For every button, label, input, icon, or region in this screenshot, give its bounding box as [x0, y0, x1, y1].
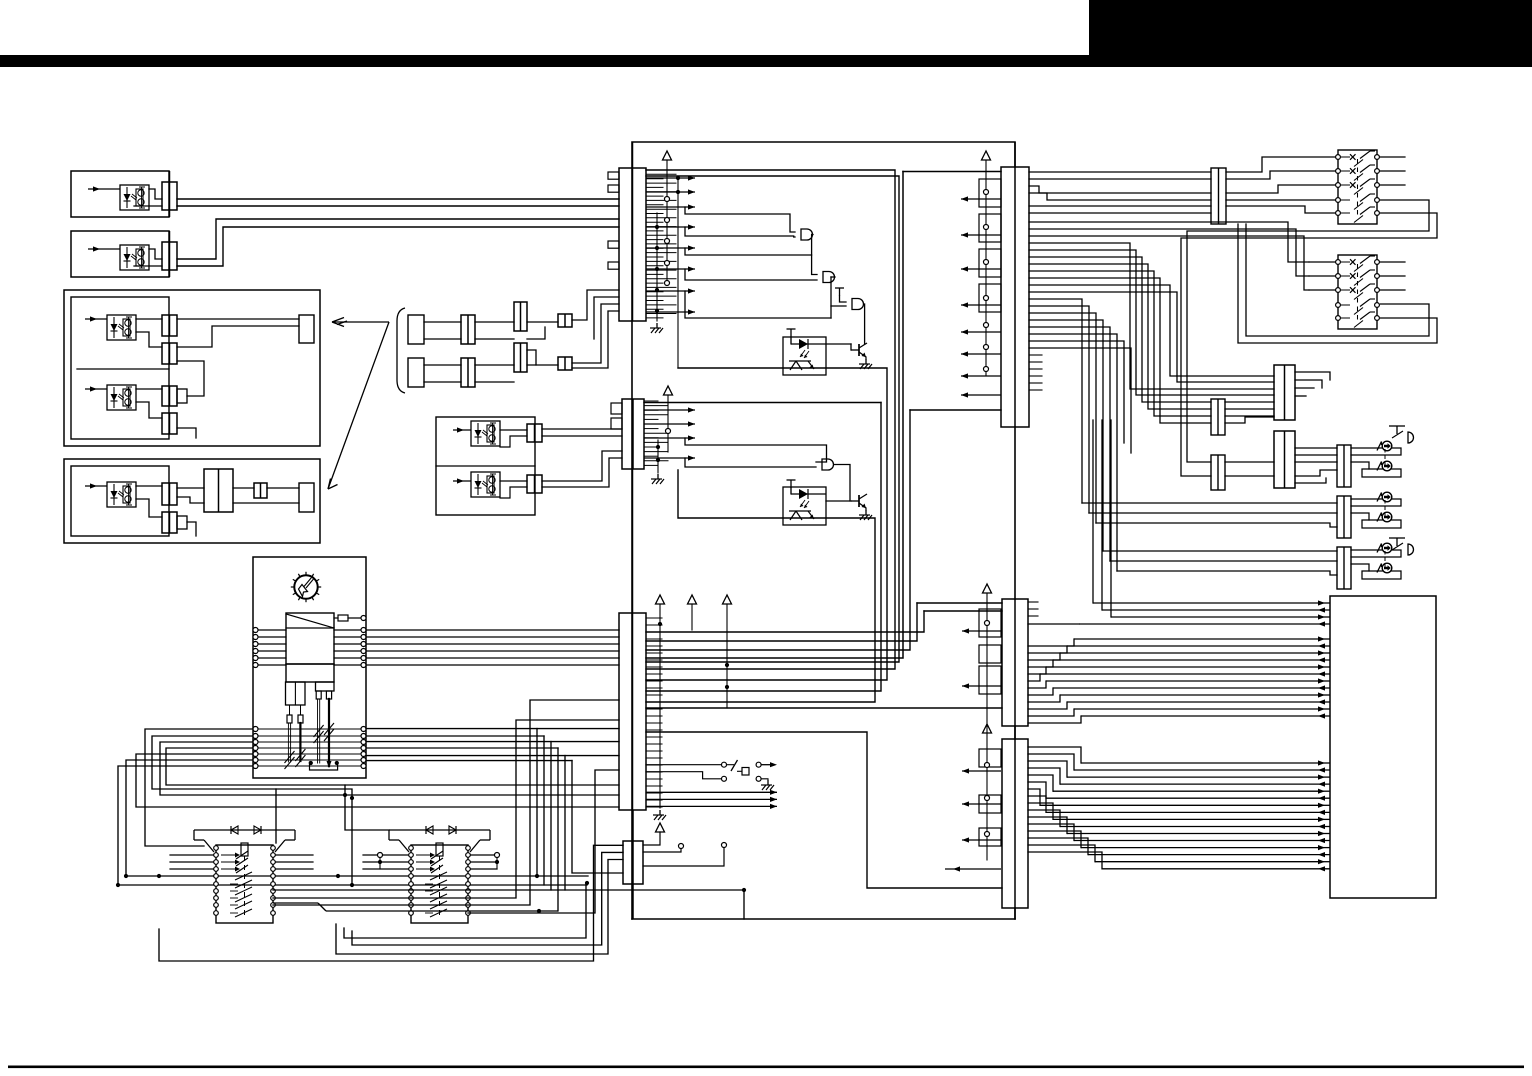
rail — [985, 160, 987, 376]
power symbol — [688, 595, 697, 604]
terminal — [985, 832, 990, 837]
pin — [316, 691, 321, 699]
wire — [1110, 420, 1112, 617]
link dashes — [1384, 551, 1386, 567]
solenoid loop — [1362, 469, 1401, 477]
bracket — [397, 308, 405, 393]
relay jog wire — [273, 903, 558, 911]
terminal — [984, 225, 989, 230]
signal wire — [1088, 852, 1330, 857]
connector CNR4b — [1211, 455, 1225, 490]
triac1 output wire — [646, 368, 887, 680]
wire — [850, 344, 852, 350]
pin wire — [1028, 810, 1060, 827]
AND gate U2 — [822, 459, 834, 470]
pin wire — [644, 400, 658, 402]
pair wire — [1096, 523, 1337, 527]
signal wire — [961, 302, 1001, 307]
ground S1 — [761, 780, 774, 790]
wire — [334, 643, 364, 645]
wire — [348, 617, 364, 619]
pin wire — [646, 178, 663, 180]
pointer arrow A — [332, 318, 389, 327]
connector — [527, 475, 542, 493]
relay RY1 — [194, 826, 295, 923]
wire — [643, 848, 724, 866]
wire to SW1 — [1226, 171, 1338, 179]
pin wire — [644, 464, 658, 466]
ground rail — [657, 440, 659, 473]
signal wire — [1074, 838, 1330, 843]
signal wire — [961, 373, 1001, 378]
junction — [335, 761, 339, 765]
connector CN-B1 — [162, 171, 177, 217]
wire — [177, 428, 196, 438]
wire — [424, 321, 461, 323]
U2 output — [834, 465, 850, 502]
unit box B3 — [64, 290, 320, 446]
pin stub — [608, 185, 619, 192]
connector CN4 — [623, 810, 643, 919]
terminal — [253, 746, 258, 751]
pin wire — [1029, 368, 1042, 370]
pin wire — [646, 247, 663, 249]
pin wire — [646, 278, 676, 280]
terminal — [666, 429, 671, 434]
signal wire — [646, 204, 695, 209]
signal wire — [646, 790, 777, 795]
connector — [514, 343, 527, 372]
switch array SW1 — [1336, 150, 1380, 224]
wire B5 to CN3 — [366, 755, 619, 757]
wire bus — [646, 410, 910, 650]
wire — [1225, 408, 1274, 410]
pin stub — [608, 262, 619, 269]
rail — [677, 178, 679, 368]
wire fan — [1029, 243, 1274, 389]
connector CN-B3 — [299, 315, 314, 343]
pin wire — [644, 437, 658, 439]
bus wire — [118, 884, 587, 886]
wire — [500, 429, 527, 431]
switch array SW2 — [1336, 255, 1380, 329]
bus wire — [273, 889, 744, 891]
pin wire — [1028, 838, 1088, 855]
gauge ticks — [314, 725, 324, 743]
wire — [527, 321, 558, 323]
wire — [366, 747, 558, 749]
terminal — [756, 776, 761, 781]
gauge ticks — [324, 723, 334, 741]
wire fan — [1029, 320, 1103, 551]
pin wire — [1028, 709, 1074, 716]
pin stub — [611, 403, 622, 414]
wire fan — [1029, 271, 1211, 416]
pin stub box — [979, 645, 1001, 663]
wire row — [258, 753, 361, 755]
wire loop to CN3 — [136, 754, 619, 807]
signal wire — [1074, 706, 1330, 711]
photocoupler PC5 — [107, 482, 136, 507]
pin wire — [1028, 761, 1067, 777]
terminal — [984, 367, 989, 372]
connector CN-B4a — [204, 469, 233, 512]
wire B2 to CN1 — [177, 227, 619, 266]
wire — [1225, 417, 1274, 423]
photocoupler PC4 — [107, 385, 136, 410]
wire to SW1 — [1226, 199, 1338, 201]
link bar — [310, 762, 338, 770]
pin wire — [646, 169, 663, 171]
stub plug — [177, 516, 187, 529]
pin wire — [646, 645, 662, 647]
wire — [865, 508, 867, 510]
junction — [537, 909, 541, 913]
wire B1 to CN1 — [177, 198, 619, 200]
wire — [500, 436, 527, 447]
wire — [646, 764, 721, 766]
wire to CN2 — [542, 458, 622, 487]
pin wire — [1028, 775, 1053, 791]
pin wire — [644, 451, 668, 453]
wire — [761, 779, 768, 780]
terminal — [361, 635, 366, 640]
wire fan — [1029, 348, 1131, 453]
wire fan — [1029, 264, 1211, 409]
signal wire — [1067, 775, 1330, 780]
timer symbol TD1 — [1389, 426, 1414, 443]
wire fan — [1029, 250, 1274, 395]
terminal — [361, 616, 366, 621]
wire fan — [1029, 334, 1117, 571]
wire — [334, 629, 364, 631]
wire — [527, 327, 545, 339]
pin wire — [646, 317, 663, 319]
signal wire — [1074, 636, 1330, 641]
stub wire — [363, 861, 411, 863]
solenoid SL1 — [1377, 441, 1392, 451]
pin wire — [644, 460, 668, 462]
wire — [319, 699, 321, 763]
sensor box B6 — [436, 417, 535, 515]
connector CN-B4b — [254, 483, 267, 498]
timer symbol TD2 — [1389, 538, 1414, 555]
wire — [256, 629, 287, 631]
signal wire — [1111, 614, 1330, 619]
pin wire — [646, 182, 676, 184]
signal wire — [1040, 671, 1330, 676]
wire — [233, 502, 299, 504]
input arrow — [88, 186, 120, 191]
signal wire — [962, 683, 1001, 688]
wire to SW1 — [1226, 206, 1338, 213]
pin wire — [646, 252, 676, 254]
pair wire — [1089, 512, 1337, 514]
pin wire — [1028, 660, 1053, 667]
pin — [287, 715, 292, 723]
stub wire — [363, 868, 411, 870]
terminal — [361, 734, 366, 739]
pin wire — [1028, 653, 1060, 660]
wire — [290, 723, 292, 762]
wire to U1c — [831, 305, 846, 307]
signal wire — [1060, 782, 1330, 787]
pin wire — [1028, 623, 1079, 625]
wire fan — [1029, 299, 1082, 503]
wire — [149, 189, 162, 199]
power symbol — [983, 724, 992, 733]
wire — [536, 729, 538, 876]
wire fan — [1029, 341, 1124, 443]
inner board B3 — [71, 297, 169, 439]
pin wire — [644, 446, 658, 448]
pin wire — [1028, 782, 1046, 798]
solenoid CNR6a — [1377, 492, 1392, 502]
solenoid loop — [1351, 499, 1401, 506]
pin wire — [646, 269, 676, 271]
terminal — [984, 323, 989, 328]
pin wire — [644, 414, 668, 416]
wire — [550, 742, 552, 890]
signal wire — [1046, 796, 1330, 801]
stub wire — [1309, 289, 1338, 291]
wire — [334, 650, 364, 652]
pin wire — [646, 673, 662, 675]
junction — [725, 685, 729, 689]
wire — [1101, 420, 1103, 610]
connector CNR5 — [1337, 445, 1351, 487]
pin wire — [646, 221, 663, 223]
solenoid CNR7a — [1377, 543, 1392, 553]
wire loop — [145, 729, 253, 846]
terminal — [665, 218, 670, 223]
wire — [790, 337, 792, 344]
wire — [177, 361, 204, 396]
connector CN5 — [1001, 142, 1029, 427]
pin wire — [644, 441, 668, 443]
wire to CN1 — [594, 297, 619, 339]
junction — [157, 874, 161, 878]
wire to CN1 — [572, 290, 619, 320]
junction — [495, 860, 499, 864]
pin wire — [1028, 817, 1067, 834]
main pcb outline — [632, 142, 1015, 919]
wire — [334, 664, 364, 666]
wire — [830, 277, 832, 318]
pin wire — [646, 295, 676, 297]
pin wire — [646, 680, 662, 682]
wire B5 to CN3 — [366, 643, 619, 645]
wire — [1295, 380, 1322, 388]
pin wire — [646, 204, 663, 206]
solenoid loop — [1362, 520, 1401, 528]
pin wire — [646, 260, 676, 262]
signal wire — [1046, 678, 1330, 683]
terminal — [361, 746, 366, 751]
solenoid CNR6b — [1377, 512, 1392, 522]
wire B1 to CN1 — [177, 205, 619, 207]
pin wire — [644, 455, 658, 457]
signal wire — [1060, 692, 1330, 697]
wire — [149, 249, 162, 259]
wire to CN2 — [542, 451, 622, 481]
signal wire — [1102, 866, 1330, 871]
pin wire — [646, 638, 662, 640]
wire — [527, 364, 558, 366]
gauge ticks — [295, 749, 305, 767]
terminal — [253, 635, 258, 640]
inner board top edge — [903, 171, 1001, 173]
terminal — [665, 281, 670, 286]
junction — [124, 874, 128, 878]
terminal — [722, 776, 727, 781]
wire bus — [646, 176, 899, 662]
pin stub — [611, 418, 622, 429]
signal wire — [1067, 643, 1330, 648]
connector CNR6 — [1337, 496, 1351, 538]
pin stub box — [979, 179, 1001, 207]
wire — [1351, 462, 1369, 469]
terminal — [665, 239, 670, 244]
junction — [658, 622, 662, 626]
wire loop to CN4 — [159, 845, 623, 961]
signal wire — [1053, 817, 1330, 822]
photocoupler PC2 — [120, 245, 149, 270]
connector CN2 — [622, 399, 644, 469]
pin wire — [646, 722, 662, 724]
sensor box B1 — [71, 171, 169, 217]
wire — [289, 705, 291, 715]
junction — [378, 860, 382, 864]
wire — [1351, 564, 1369, 571]
main pcb right edge — [1014, 726, 1016, 739]
rail — [986, 593, 988, 860]
pin wire — [646, 624, 662, 626]
bus wire — [126, 875, 588, 877]
ground CN1 — [650, 323, 663, 333]
signal wire — [646, 175, 695, 180]
wire fan — [1029, 292, 1274, 382]
inner board B4 — [71, 466, 169, 536]
wire — [496, 855, 498, 869]
AND gate U1c — [852, 299, 864, 310]
pin wire — [646, 750, 662, 752]
terminal — [495, 853, 500, 858]
connector — [162, 512, 177, 533]
wire — [557, 748, 559, 911]
wire — [134, 205, 162, 207]
wire row — [258, 741, 361, 743]
pair wire — [1110, 560, 1337, 562]
junction — [655, 267, 659, 271]
signal wire — [646, 224, 695, 229]
junction — [350, 883, 354, 887]
wire loop — [126, 760, 253, 876]
pair wire — [1117, 571, 1337, 575]
wire row — [258, 747, 361, 749]
pin wire — [646, 230, 663, 232]
terminal — [253, 656, 258, 661]
pull-up T — [835, 288, 844, 296]
interface unit — [1330, 596, 1436, 898]
wire — [136, 402, 162, 418]
power symbol — [656, 595, 665, 604]
wire loop to CN3 — [166, 748, 619, 785]
junction — [676, 190, 680, 194]
wire to CN3 — [273, 720, 619, 898]
wire bus — [646, 611, 924, 632]
connector CNR3b — [1274, 431, 1295, 488]
terminal — [679, 844, 684, 849]
wire — [136, 485, 162, 487]
wire — [1295, 395, 1306, 397]
solenoid SL2 — [1377, 461, 1392, 471]
wire — [1295, 372, 1330, 380]
pin — [326, 691, 331, 699]
wire B5 to CN3 — [366, 728, 619, 730]
pin stub box — [979, 795, 1001, 813]
wire B5 to CN3 — [366, 657, 619, 659]
signal wire — [761, 762, 777, 767]
terminal — [253, 758, 258, 763]
connector — [162, 386, 177, 406]
wire — [790, 488, 792, 494]
terminal — [378, 853, 383, 858]
stub wire — [1377, 170, 1405, 172]
terminal — [984, 296, 989, 301]
wire — [500, 487, 527, 498]
wire — [334, 657, 364, 659]
pull-up T — [787, 480, 796, 488]
stub wire — [468, 861, 497, 863]
terminal — [361, 758, 366, 763]
signal wire — [1060, 650, 1330, 655]
connector CN6 — [1002, 599, 1028, 726]
wire — [1029, 171, 1211, 173]
pin wire — [646, 701, 662, 703]
signal wire — [1060, 824, 1330, 829]
input arrow — [453, 478, 471, 483]
wire — [317, 699, 319, 763]
transistor Q1 — [851, 343, 867, 357]
diag line — [286, 614, 334, 628]
wire — [643, 832, 660, 845]
signal wire — [961, 196, 1001, 201]
photocoupler PC3 — [107, 315, 136, 340]
stub wire — [273, 861, 313, 863]
connector — [558, 357, 572, 370]
wire — [1029, 205, 1211, 207]
wire — [334, 636, 364, 638]
pull-up T — [787, 329, 796, 337]
connector — [527, 424, 542, 442]
wire to CN7 — [646, 732, 1002, 888]
connector CNR1 — [1211, 168, 1226, 224]
U1b output — [831, 276, 835, 278]
pin wire — [1028, 852, 1102, 869]
wire heavy — [328, 699, 330, 766]
stub wire — [468, 868, 497, 870]
signal wire — [1046, 810, 1330, 815]
pin wire — [1028, 695, 1060, 702]
connector CNR3a — [1274, 365, 1295, 420]
wire — [275, 789, 277, 843]
power symbol — [723, 595, 732, 604]
wire fan — [1029, 257, 1211, 402]
SW2 return wire — [1246, 224, 1429, 336]
wire B5 to CN3 — [366, 664, 619, 666]
signal wire — [961, 266, 1001, 271]
